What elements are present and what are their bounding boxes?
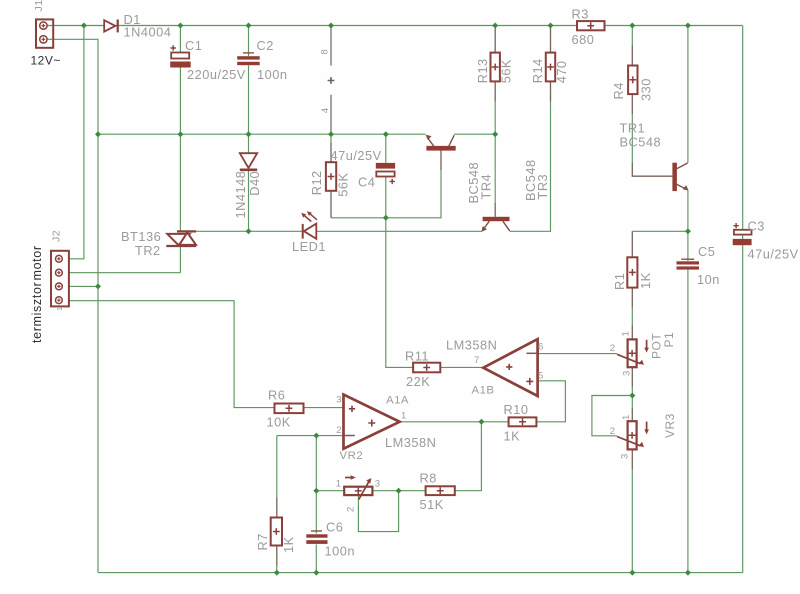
LED LED1: [301, 211, 317, 239]
capacitor C2: [237, 53, 260, 65]
wire C1 / triac column: [179, 26, 181, 273]
svg-text:motor: motor: [30, 245, 44, 280]
diode D1: [104, 20, 118, 33]
wire J2 pin2 to triac: [69, 272, 180, 274]
wire J1 pin1 column x84 down to J2 pin1: [69, 26, 84, 259]
svg-text:2: 2: [610, 426, 615, 437]
wire R14 column to TR3 collector: [510, 101, 551, 231]
svg-text:R12: R12: [309, 170, 324, 195]
svg-text:1N4004: 1N4004: [124, 25, 172, 40]
svg-text:3: 3: [622, 371, 633, 376]
svg-text:C2: C2: [257, 38, 274, 53]
svg-text:TR4: TR4: [478, 174, 493, 200]
svg-text:2: 2: [346, 507, 357, 512]
svg-text:1K: 1K: [504, 429, 521, 444]
svg-text:R4: R4: [611, 82, 626, 99]
wire R4 column to TR1 base: [631, 26, 633, 163]
wire J2 pin3 stub: [69, 285, 98, 287]
transistor TR3: [481, 217, 509, 232]
svg-text:10n: 10n: [697, 272, 720, 287]
wire emitter node to R1: [632, 230, 688, 232]
transistor TR1: [672, 163, 688, 191]
svg-text:TR3: TR3: [535, 174, 550, 200]
svg-text:1K: 1K: [638, 272, 653, 289]
svg-text:A1A: A1A: [386, 395, 409, 407]
wire J1 pin2 to left tall vertical: [46, 39, 98, 572]
wire C2 / D40 column: [248, 26, 250, 232]
svg-text:12V~: 12V~: [31, 54, 61, 68]
svg-text:termisztor: termisztor: [30, 282, 44, 343]
wire P1/VR3 node loop to VR3 wiper: [592, 396, 632, 436]
svg-text:D40: D40: [247, 171, 262, 196]
potentiometer P1: [617, 339, 649, 367]
svg-text:R8: R8: [420, 471, 437, 486]
svg-text:3: 3: [336, 395, 341, 406]
wire C6 node to VR2 pin1: [316, 490, 344, 492]
svg-text:BC548: BC548: [620, 135, 662, 150]
capacitor C4: [376, 163, 395, 184]
wire right edge vertical: [742, 26, 744, 573]
wire TR1 emitter / C5 column: [687, 190, 689, 572]
resistor R1: [627, 257, 637, 287]
wire A1B pin6 to P1 wiper: [538, 353, 617, 355]
svg-text:22K: 22K: [406, 374, 430, 389]
svg-text:1K: 1K: [281, 536, 296, 553]
wire C4 column: [385, 134, 387, 218]
svg-text:2: 2: [336, 425, 341, 436]
svg-text:J2: J2: [51, 230, 63, 242]
power + marker: [328, 77, 335, 84]
svg-text:A1B: A1B: [472, 385, 495, 397]
wire R1 / P1 / VR3 column: [631, 308, 633, 573]
resistor R8: [426, 486, 455, 495]
wire J2 pin4 to R6 to A1A pin3: [69, 301, 344, 408]
svg-text:1: 1: [55, 307, 64, 311]
svg-text:100n: 100n: [325, 544, 355, 559]
svg-text:1: 1: [621, 415, 632, 420]
diode D40: [240, 153, 257, 170]
component pin leads: [277, 26, 673, 566]
resistor R11: [413, 363, 440, 373]
op-amp A1B: [483, 339, 537, 396]
svg-text:LM358N: LM358N: [385, 435, 436, 450]
svg-text:C1: C1: [185, 38, 202, 53]
svg-text:1: 1: [336, 479, 341, 490]
svg-text:C4: C4: [358, 175, 375, 190]
wire A1A output to R10 left: [400, 421, 509, 423]
svg-text:47u/25V: 47u/25V: [331, 148, 382, 163]
trimmer VR2: [344, 475, 372, 499]
svg-text:LM358N: LM358N: [446, 338, 497, 353]
wire A1A pin2 net to R7: [277, 436, 344, 573]
wire mid bus: [98, 133, 495, 135]
svg-text:VR2: VR2: [340, 450, 364, 462]
svg-text:TR1: TR1: [620, 121, 646, 136]
svg-text:680: 680: [572, 32, 595, 47]
capacitor C3: [733, 223, 752, 245]
wire A1B pin5 to R10 right: [536, 381, 565, 422]
svg-text:220u/25V: 220u/25V: [187, 67, 246, 82]
resistor R13: [491, 53, 500, 82]
svg-text:1N4148: 1N4148: [233, 171, 248, 219]
svg-text:P1: P1: [662, 332, 676, 348]
svg-text:330: 330: [638, 78, 653, 101]
resistor R3: [577, 21, 605, 30]
wire TR1 collector column: [687, 26, 689, 163]
transistor TR4: [426, 135, 456, 151]
triac TR2: [166, 231, 196, 246]
svg-text:2: 2: [610, 343, 615, 354]
capacitor C1: [170, 45, 191, 67]
svg-text:10K: 10K: [267, 415, 291, 430]
svg-text:100n: 100n: [257, 67, 287, 82]
svg-text:R13: R13: [475, 58, 490, 83]
svg-text:R1: R1: [612, 273, 627, 290]
svg-text:47u/25V: 47u/25V: [748, 247, 799, 262]
svg-text:7: 7: [474, 355, 479, 366]
svg-text:J1: J1: [33, 0, 45, 12]
resistor R6: [275, 404, 304, 414]
svg-text:C3: C3: [748, 219, 765, 234]
svg-text:BT136: BT136: [121, 229, 161, 244]
wire VR2 wiper loop: [358, 491, 398, 532]
svg-text:LED1: LED1: [292, 239, 326, 254]
svg-text:3: 3: [620, 454, 631, 459]
capacitor C5: [677, 259, 700, 269]
wire R12/C4 node to TR4 base: [331, 170, 441, 218]
wire output node down to R8 right: [455, 422, 482, 491]
svg-text:1: 1: [401, 411, 406, 422]
svg-text:56K: 56K: [335, 172, 350, 196]
connector J1: [36, 19, 53, 47]
svg-text:R14: R14: [530, 58, 545, 83]
power pins 8/4 stub of LM358N: [330, 26, 332, 135]
resistor R4: [628, 66, 637, 95]
svg-text:R6: R6: [268, 388, 285, 403]
wire C4 node down to R11 and to A1B output: [386, 218, 484, 368]
svg-text:4: 4: [320, 108, 331, 113]
svg-text:3: 3: [375, 479, 380, 490]
resistor R14: [546, 53, 555, 82]
svg-text:R10: R10: [504, 402, 529, 417]
wire LED net: [196, 230, 482, 232]
svg-text:5: 5: [538, 371, 543, 382]
svg-text:C6: C6: [326, 520, 343, 535]
resistor R10: [509, 417, 537, 426]
svg-text:R7: R7: [255, 533, 270, 550]
resistor R12: [326, 162, 336, 191]
wire C6 column: [315, 436, 317, 573]
svg-text:R11: R11: [405, 349, 429, 364]
svg-text:470: 470: [554, 60, 569, 83]
op-amp A1A: [344, 395, 400, 449]
wire R12 leads: [330, 134, 332, 142]
wire top bus: [46, 25, 743, 27]
wire bottom bus: [98, 572, 743, 574]
svg-text:56K: 56K: [499, 59, 514, 83]
wire R13 column / TR3 base: [494, 101, 496, 202]
potentiometer VR3: [617, 421, 649, 449]
svg-text:8: 8: [320, 49, 331, 54]
resistor R7: [271, 518, 282, 546]
svg-text:1: 1: [621, 331, 632, 336]
connector J2: [51, 251, 69, 307]
svg-text:51K: 51K: [420, 497, 444, 512]
capacitor C6: [306, 531, 327, 544]
svg-text:VR3: VR3: [663, 413, 677, 438]
svg-text:TR2: TR2: [135, 243, 161, 258]
svg-text:6: 6: [538, 341, 543, 352]
wire VR2 pin3 to R8: [372, 490, 425, 492]
svg-text:C5: C5: [698, 244, 715, 259]
svg-text:R3: R3: [572, 7, 589, 22]
